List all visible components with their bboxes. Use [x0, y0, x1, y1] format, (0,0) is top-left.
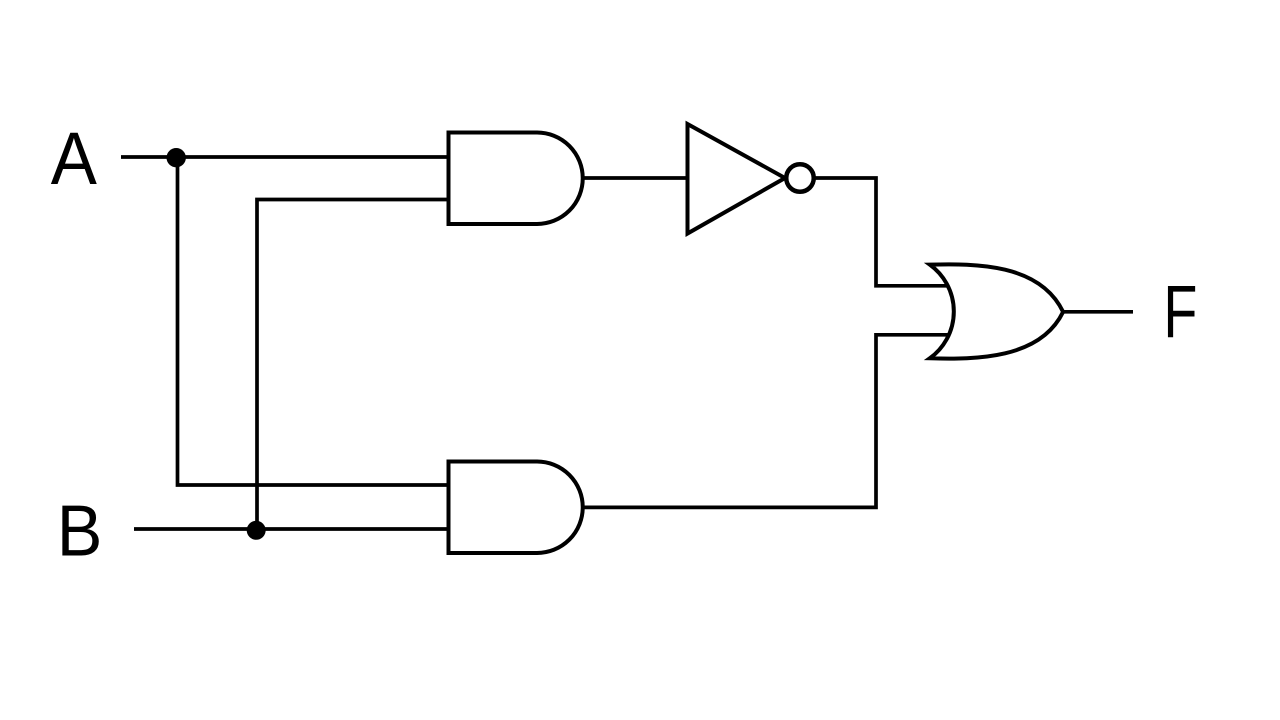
wire inverter output to OR top input — [813, 178, 950, 286]
svg-text:B: B — [57, 490, 103, 571]
inverter U3 triangle — [688, 124, 786, 234]
wire B branch to upper AND gate — [257, 200, 452, 530]
wire A branch to lower AND gate — [178, 157, 453, 485]
AND gate U2 (bottom) — [449, 462, 583, 554]
svg-text:F: F — [1163, 270, 1197, 353]
OR gate U4 — [930, 264, 1063, 358]
wire AND1 output to inverter — [583, 176, 692, 180]
wire AND2 output to OR bottom input — [583, 335, 950, 508]
wire B lead — [134, 527, 452, 531]
svg-text:A: A — [51, 118, 97, 201]
AND gate U1 (top) — [449, 133, 583, 225]
wire A lead — [121, 155, 452, 159]
inverter bubble — [786, 164, 814, 192]
node B junction — [247, 521, 266, 540]
node A junction — [167, 148, 186, 167]
wire OR output — [1063, 310, 1133, 314]
